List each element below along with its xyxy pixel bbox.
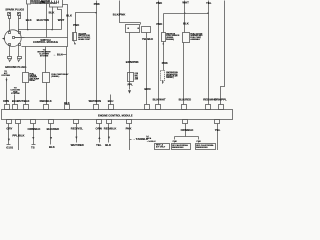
label BLK/PNK	[113, 12, 126, 16]
inline connector box (dashed) B5	[161, 71, 165, 81]
wire module bottom-right to bus	[66, 47, 68, 105]
relay box B2	[43, 73, 50, 83]
vacuum switch S1	[73, 33, 77, 42]
distributor terminal top-right	[19, 32, 21, 34]
label WHT	[58, 18, 65, 22]
label PPL/BLK	[12, 134, 24, 138]
svg-text:RED/BLK: RED/BLK	[104, 127, 117, 131]
note box	[155, 144, 170, 150]
wire coil A to distributor line	[52, 7, 54, 30]
svg-text:RELAY: RELAY	[29, 79, 36, 82]
svg-text:A/T ONLY: A/T ONLY	[156, 146, 166, 149]
svg-text:(DIESEL): (DIESEL)	[51, 76, 59, 78]
svg-text:YEL: YEL	[206, 1, 212, 5]
spark plug P2 (top right)	[18, 13, 21, 32]
label BLK/RED bottom	[47, 127, 60, 149]
label RED/YEL	[71, 127, 84, 148]
wire fuel pump feed	[184, 1, 186, 33]
label fuel sender	[29, 73, 40, 82]
wire box1 to bus	[25, 83, 27, 105]
label BLK coil C	[66, 14, 72, 18]
label BLK on condenser wire	[26, 18, 32, 22]
svg-text:ENGINE): ENGINE)	[166, 39, 174, 41]
svg-text:ORN/BLK: ORN/BLK	[28, 127, 41, 131]
svg-text:PNK: PNK	[156, 22, 162, 26]
svg-text:ORN/PPL: ORN/PPL	[214, 97, 227, 101]
label TO A/C SYSTEM	[1, 71, 10, 77]
label ORN bottom	[96, 127, 102, 148]
svg-text:WHT/BLK: WHT/BLK	[17, 99, 30, 103]
svg-text:BLU: BLU	[108, 99, 114, 103]
label note box	[156, 144, 166, 149]
wire branch to vacuum switch	[76, 13, 97, 33]
svg-text:WHT: WHT	[58, 18, 65, 22]
svg-text:PNK: PNK	[94, 2, 100, 6]
connector pins above bus	[5, 105, 224, 110]
capacitor C1 noise condenser box	[27, 0, 31, 4]
node junction condenser wire	[27, 29, 28, 30]
svg-text:BLK: BLK	[49, 145, 55, 149]
svg-text:YEL/BLK: YEL/BLK	[142, 37, 153, 41]
svg-text:SPARK CONT: SPARK CONT	[78, 38, 91, 41]
wire BLU short to bus	[110, 95, 112, 105]
wire bottom 7 RED/BLK	[108, 124, 110, 143]
label TO INSTRUMENT CLUSTER	[37, 49, 51, 57]
svg-text:PPL: PPL	[128, 83, 134, 87]
svg-text:RED/BLK: RED/BLK	[40, 99, 52, 103]
node junction below dashed box	[162, 81, 164, 83]
label vacuum switch	[78, 32, 91, 40]
label PNK top	[94, 2, 100, 6]
svg-text:EMISSIONS: EMISSIONS	[196, 147, 208, 149]
svg-text:YEL: YEL	[96, 143, 102, 147]
node dot below sensor	[163, 43, 164, 44]
svg-text:PNK: PNK	[73, 23, 79, 27]
svg-text:WHT: WHT	[182, 1, 189, 5]
wire fuel pump to bus	[183, 43, 185, 105]
wire water sensor chain	[163, 14, 165, 33]
label PNK on branch	[73, 23, 79, 27]
label TAN/BLK	[132, 137, 148, 141]
label ORN/BLK 9	[173, 128, 202, 143]
connector pins below bus	[7, 120, 220, 124]
wire coil B to distributor line	[58, 7, 62, 30]
svg-text:BLK/PNK: BLK/PNK	[113, 12, 126, 16]
wire distributor bottom-right to plug	[18, 45, 20, 57]
svg-text:CON: CON	[135, 73, 138, 75]
svg-text:BRN: BRN	[144, 87, 150, 91]
engine control module bus bar	[2, 110, 233, 120]
distributor rotor arrow	[2, 37, 5, 39]
label PNK top2	[156, 1, 162, 5]
wire PNK long vertical	[158, 1, 160, 105]
label water sensor	[166, 32, 180, 40]
distributor center pickup square	[13, 37, 15, 39]
wire distributor bottom-left to plug	[9, 45, 11, 57]
fuel pump box B6	[183, 33, 190, 43]
spark plug P3 (bottom left)	[8, 57, 12, 62]
svg-text:G101: G101	[6, 145, 13, 149]
svg-text:ORN/BLK: ORN/BLK	[181, 128, 194, 132]
spark plug P4 (bottom right)	[18, 57, 22, 62]
svg-text:VIN A: VIN A	[146, 137, 152, 140]
wire A/C to bus	[6, 78, 8, 105]
svg-text:BLK/RED: BLK/RED	[47, 127, 60, 131]
svg-text:CONTROL MODULE: CONTROL MODULE	[33, 40, 58, 44]
wire sensor box to bus	[146, 33, 148, 105]
svg-text:SYSTEM: SYSTEM	[40, 56, 49, 58]
wire coil C to module top-right	[63, 5, 68, 38]
resistor R1	[128, 73, 134, 82]
sensor box B3	[142, 27, 151, 33]
svg-text:PNK: PNK	[173, 141, 178, 143]
distributor terminal top-left	[9, 32, 11, 34]
wire K1 right edge drop	[140, 23, 142, 25]
label PNK wire8	[126, 127, 132, 131]
labels above bus left group	[3, 99, 114, 105]
distributor terminal bottom-right	[19, 44, 21, 46]
label BLK/TAN	[37, 18, 49, 22]
svg-text:PNK: PNK	[162, 61, 168, 65]
wire box2 to bus	[46, 83, 48, 105]
wire pickup to module	[15, 37, 25, 39]
wire vacuum switch stub	[74, 42, 76, 44]
svg-text:BLK: BLK	[26, 18, 32, 22]
label RED/BLK bottom	[104, 127, 117, 148]
wire dashed box merge to bus	[162, 81, 164, 84]
wire bottom 10 YEL	[217, 124, 219, 151]
wire BLK/PNK from top	[120, 1, 141, 23]
label ignition control module	[33, 38, 58, 44]
arrow on A/C wire	[6, 79, 8, 81]
svg-text:ORN: ORN	[3, 99, 9, 103]
svg-text:EMISSIONS: EMISSIONS	[172, 147, 184, 149]
label callout left	[172, 144, 188, 149]
wire ignition feed left	[46, 1, 48, 38]
label BLK coil A	[49, 10, 55, 14]
label noise condenser	[31, 0, 58, 5]
wire K1 to resistor chain	[129, 33, 131, 90]
label PNK mid	[156, 22, 162, 26]
wire bottom 5 RED/YEL	[75, 124, 77, 143]
label PPL	[128, 83, 134, 87]
label ORN/PPL	[214, 97, 227, 101]
arrow wire end down	[128, 90, 131, 93]
label ORN/BLK	[28, 127, 41, 149]
svg-text:GRY: GRY	[6, 127, 12, 131]
callout box left	[172, 144, 191, 150]
svg-text:PNK: PNK	[126, 127, 132, 131]
label dashed box	[166, 71, 179, 79]
svg-text:BLK/WHT: BLK/WHT	[153, 97, 166, 101]
wire condenser to distributor line	[27, 5, 29, 30]
node junction at 184.7	[184, 12, 185, 13]
connector K1 box	[126, 25, 140, 33]
wire module to fuel box1	[25, 47, 27, 73]
wire distributor top-right to coil junction	[19, 30, 62, 32]
label BLK on 184	[183, 22, 189, 26]
wire bottom 8 TAN/BLK	[130, 124, 132, 151]
wire bottom 1 GRY	[7, 124, 11, 145]
wire YEL vertical right	[208, 1, 210, 105]
wire main PNK vertical	[96, 1, 98, 105]
label relay box	[51, 73, 69, 78]
ignition coil T1	[50, 0, 63, 7]
wire sensor to dashed box	[163, 42, 165, 71]
label TO COOLING FAN SYSTEM	[11, 88, 21, 96]
label resistor R1	[135, 73, 139, 80]
svg-text:BLK: BLK	[105, 143, 111, 147]
label BLK/RED	[179, 97, 192, 101]
callout box right	[196, 144, 216, 150]
label RED above bus	[203, 97, 216, 101]
svg-text:WHT/RED: WHT/RED	[71, 143, 84, 147]
label top blob feed	[40, 1, 46, 4]
svg-text:WHT/BRN: WHT/BRN	[89, 99, 101, 103]
svg-text:BLK/RED: BLK/RED	[179, 97, 192, 101]
label callout right	[196, 144, 214, 149]
svg-text:SPARK PLUGS: SPARK PLUGS	[5, 7, 24, 11]
label L4 VIN note	[146, 135, 156, 143]
svg-text:YEL: YEL	[215, 128, 221, 132]
svg-text:ORN: ORN	[96, 127, 102, 131]
distributor terminal bottom-left	[9, 44, 11, 46]
svg-text:ENGINE CONTROL MODULE: ENGINE CONTROL MODULE	[98, 114, 133, 117]
svg-text:DIESEL): DIESEL)	[166, 77, 174, 79]
wire bottom 3 ORN/BLK	[32, 124, 36, 145]
label under sensor box	[142, 37, 153, 41]
wire bottom 4 BLK/RED	[50, 124, 52, 145]
label PNK chain	[162, 61, 168, 65]
svg-text:GROUND PLUGS: GROUND PLUGS	[5, 65, 27, 69]
svg-text:BLK: BLK	[49, 10, 55, 14]
svg-text:TS: TS	[31, 145, 35, 149]
wire BLK tap tick	[61, 54, 67, 56]
svg-text:ASSEMBLY: ASSEMBLY	[190, 38, 201, 41]
wire module to fuel box2	[45, 47, 47, 73]
label top blob WHT	[182, 1, 189, 5]
ignition control module outline (open left)	[15, 38, 68, 47]
label fuel pump box	[190, 32, 203, 40]
node junction at 208.1	[207, 12, 208, 13]
wire far right vertical	[221, 1, 225, 105]
water in fuel sensor box B4	[162, 33, 166, 42]
label BLK tap	[53, 53, 62, 57]
wire horizontal branch right	[164, 13, 209, 15]
label YEL bottom	[215, 128, 221, 132]
label YEL top	[206, 1, 212, 5]
svg-text:SYSTEM: SYSTEM	[11, 93, 20, 95]
svg-text:BLK: BLK	[66, 14, 72, 18]
svg-text:PNK: PNK	[40, 1, 46, 4]
svg-text:PPL/BLK: PPL/BLK	[12, 134, 24, 138]
label engine control module	[98, 114, 133, 117]
wire bottom 9 ORN/BLK split	[175, 124, 199, 144]
wire cooling fan to bus	[14, 95, 16, 105]
svg-text:BLK/TAN: BLK/TAN	[37, 18, 49, 22]
svg-text:PNK: PNK	[197, 141, 202, 143]
svg-text:BLK: BLK	[183, 22, 189, 26]
distributor body	[4, 30, 21, 47]
svg-text:→14 BLU: →14 BLU	[146, 140, 156, 143]
svg-text:PNK: PNK	[156, 1, 162, 5]
label BLK/WHT	[153, 97, 166, 101]
wire bottom 6 ORN	[98, 124, 100, 143]
spark plug P1 (top left)	[8, 13, 11, 32]
label BRN	[144, 87, 150, 91]
svg-text:BRN/PNK: BRN/PNK	[126, 60, 139, 64]
node junction PNK branch	[95, 12, 96, 13]
label GRY	[6, 127, 13, 150]
label SPARK PLUGS (top)	[5, 7, 24, 11]
svg-text:RED/YEL: RED/YEL	[71, 127, 84, 131]
wire bottom 2 PPL/BLK	[18, 124, 20, 151]
fuel gauge sender box B1	[23, 73, 29, 83]
arrow vacuum stub end	[74, 43, 76, 45]
label SPARK PLUGS (bottom)	[5, 65, 27, 69]
svg-text:SYSTEM: SYSTEM	[1, 75, 10, 77]
label BRN/PNK	[126, 60, 139, 64]
node junction coil wire	[51, 29, 52, 30]
